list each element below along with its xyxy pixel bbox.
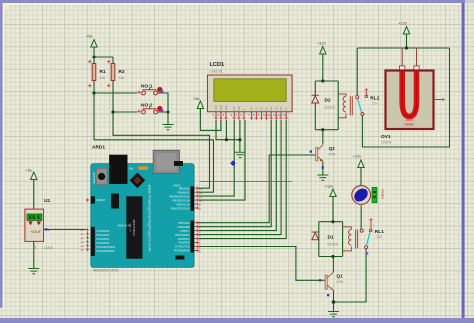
svg-text:11: 11 <box>268 113 271 117</box>
svg-text:LM35: LM35 <box>44 246 53 250</box>
svg-text:~PD6/AIN0: ~PD6/AIN0 <box>177 225 191 229</box>
svg-text:NPN: NPN <box>336 280 343 284</box>
svg-text:D2: D2 <box>325 98 331 104</box>
svg-text:A5: A5 <box>81 248 85 252</box>
svg-text:ON: ON <box>129 167 133 171</box>
svg-text:PB4/MISO: PB4/MISO <box>178 191 190 195</box>
svg-text:D7: D7 <box>284 107 288 111</box>
svg-text:LM016L: LM016L <box>210 70 224 74</box>
svg-text:TX PD1/TXD: TX PD1/TXD <box>175 245 190 249</box>
svg-text:U1: U1 <box>44 198 50 204</box>
svg-text:A4: A4 <box>81 244 85 248</box>
svg-text:D5: D5 <box>274 107 278 111</box>
svg-text:RESET: RESET <box>97 198 106 202</box>
svg-text:PC5/ADC5/SCL: PC5/ADC5/SCL <box>97 249 116 253</box>
svg-text:D1: D1 <box>254 107 258 111</box>
svg-text:RS: RS <box>232 107 236 111</box>
svg-text:PC3/ADC3: PC3/ADC3 <box>97 241 110 245</box>
svg-text:OV1: OV1 <box>381 134 391 140</box>
svg-text:OVEN: OVEN <box>381 141 392 145</box>
svg-text:A3: A3 <box>81 240 85 244</box>
svg-text:A0: A0 <box>81 228 85 232</box>
svg-text:+12v: +12v <box>398 21 407 26</box>
svg-text:PC4/ADC4/SDA: PC4/ADC4/SDA <box>97 245 116 249</box>
svg-text:LCD1: LCD1 <box>210 62 225 68</box>
svg-text:+5v: +5v <box>86 34 93 39</box>
svg-text:Heater: Heater <box>404 123 415 127</box>
svg-text:VDD: VDD <box>219 105 223 111</box>
svg-text:+5v: +5v <box>193 96 200 101</box>
svg-text:ATMEGA328P: ATMEGA328P <box>132 219 136 236</box>
svg-text:D4: D4 <box>269 107 273 111</box>
svg-text:~PD5/T1: ~PD5/T1 <box>179 229 190 233</box>
svg-text:12V: 12V <box>376 235 383 239</box>
svg-text:PD4/T0/XCK: PD4/T0/XCK <box>175 233 190 237</box>
svg-text:DIODE: DIODE <box>328 242 339 246</box>
svg-text:~PB2/SS/OC1B: ~PB2/SS/OC1B <box>171 199 190 203</box>
svg-text:E: E <box>242 109 246 111</box>
svg-text:10k: 10k <box>100 76 106 80</box>
svg-text:12V: 12V <box>372 102 379 106</box>
svg-text:PC2/ADC2: PC2/ADC2 <box>97 237 110 241</box>
svg-text:~PB3/MOSI/OC2A: ~PB3/MOSI/OC2A <box>168 195 190 199</box>
svg-text:100%: 100% <box>405 118 413 122</box>
svg-text:NO:1: NO:1 <box>141 83 153 89</box>
svg-text:R1: R1 <box>100 69 106 75</box>
svg-text:RW: RW <box>237 106 241 111</box>
svg-text:DIODE: DIODE <box>325 105 336 109</box>
svg-text:A1: A1 <box>81 232 85 236</box>
svg-text:D1: D1 <box>328 235 334 241</box>
svg-text:ARD1: ARD1 <box>92 145 105 151</box>
svg-text:A2: A2 <box>81 236 85 240</box>
svg-text:Heater: Heater <box>380 190 384 201</box>
svg-text:PD2/INT0: PD2/INT0 <box>178 241 190 245</box>
svg-text:R2: R2 <box>119 69 125 75</box>
svg-text:RX PD0/RXD: RX PD0/RXD <box>174 249 190 253</box>
svg-text:ANALOG IN: ANALOG IN <box>118 225 131 228</box>
svg-text:+5v: +5v <box>26 168 33 173</box>
svg-text:PC1/ADC1: PC1/ADC1 <box>97 233 110 237</box>
svg-text:www.TheEngineeringProjects.com: www.TheEngineeringProjects.com <box>147 185 151 252</box>
svg-text:PB5/SCK: PB5/SCK <box>179 187 190 191</box>
svg-text:VOUT: VOUT <box>31 230 42 234</box>
svg-text:NPN: NPN <box>329 152 336 156</box>
svg-text:VEE: VEE <box>224 105 228 110</box>
svg-text:VSS: VSS <box>214 105 218 110</box>
svg-text:D6: D6 <box>279 107 283 111</box>
svg-text:Q2: Q2 <box>329 146 336 151</box>
svg-text:10k: 10k <box>119 76 125 80</box>
svg-text:D2: D2 <box>260 107 264 111</box>
svg-text:+12v: +12v <box>317 41 326 46</box>
svg-text:PB0/ICP1/CLKO: PB0/ICP1/CLKO <box>171 207 190 211</box>
svg-text:RL1: RL1 <box>375 229 384 235</box>
svg-text:+12v: +12v <box>325 184 334 189</box>
svg-text:ARDUINO UNO: ARDUINO UNO <box>93 268 119 272</box>
svg-text:+12v: +12v <box>353 154 362 159</box>
svg-text:1: 1 <box>34 246 36 250</box>
svg-text:RL2: RL2 <box>370 96 379 102</box>
svg-text:PD7/AIN1: PD7/AIN1 <box>178 221 190 225</box>
svg-text:Q1: Q1 <box>336 274 343 279</box>
svg-text:NO:2: NO:2 <box>141 102 153 108</box>
svg-text:~PB1/OC1A: ~PB1/OC1A <box>176 203 190 207</box>
svg-text:D3: D3 <box>264 107 268 111</box>
svg-text:PC0/ADC0: PC0/ADC0 <box>97 229 110 233</box>
svg-text:Reset BTN: Reset BTN <box>93 172 96 184</box>
svg-text:D0: D0 <box>250 107 254 111</box>
svg-text:~PD3/INT1: ~PD3/INT1 <box>177 237 190 241</box>
